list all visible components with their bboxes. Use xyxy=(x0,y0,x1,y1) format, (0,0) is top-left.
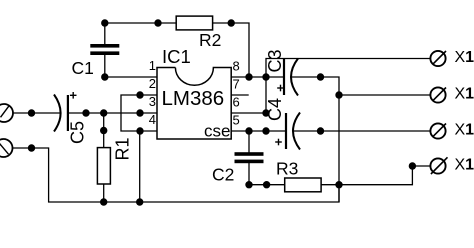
capacitor C2 xyxy=(235,152,264,163)
capacitor C1 xyxy=(90,44,119,55)
wire input bottom to rail xyxy=(13,148,340,202)
wire R1 upper lead xyxy=(103,113,105,148)
connector X1 pin 3 xyxy=(430,123,446,138)
wire C2 upper lead xyxy=(248,131,250,154)
svg-text:R3: R3 xyxy=(276,159,298,179)
wire pin 8 to C3 xyxy=(231,76,284,78)
svg-text:LM386: LM386 xyxy=(162,87,225,110)
wire C3 right to corner down xyxy=(291,77,339,202)
capacitor C4 xyxy=(285,113,287,149)
wire input top to C5 xyxy=(13,112,62,114)
svg-text:7: 7 xyxy=(233,77,240,92)
resistor R1 xyxy=(97,148,110,184)
node pin8 / R2 xyxy=(245,73,252,80)
node V+ junction xyxy=(262,73,269,80)
resistor R2 xyxy=(176,16,212,30)
wire pin 6 xyxy=(231,112,266,114)
node input top terminal xyxy=(28,109,35,116)
svg-text:cse: cse xyxy=(204,122,230,141)
connector X1 pin 1 xyxy=(430,51,446,66)
node pin 6 xyxy=(262,109,269,116)
node pin 3 dot xyxy=(136,109,143,116)
plus C3 xyxy=(277,85,284,92)
wire pin 4 down to ground rail xyxy=(139,131,141,202)
wire C5 to pin 3 xyxy=(68,112,157,114)
wire R2 right to corner and down to pin 8 xyxy=(213,23,249,77)
input connector J1 top xyxy=(0,104,13,122)
svg-text:C1: C1 xyxy=(72,58,94,78)
node X1-2 tee xyxy=(335,91,342,98)
svg-text:1: 1 xyxy=(149,58,156,73)
node R3 left terminal xyxy=(263,181,270,188)
wire C2 to R3 xyxy=(249,184,285,186)
node pin 2 dot xyxy=(136,91,143,98)
node C3 right terminal xyxy=(317,73,324,80)
svg-text:R1: R1 xyxy=(113,137,133,160)
svg-text:X1: X1 xyxy=(455,122,474,139)
wire C4 right to X1-3 xyxy=(293,130,430,132)
wire R3 right to X1-4 corner xyxy=(321,166,430,185)
svg-text:4: 4 xyxy=(149,112,156,127)
svg-text:X1: X1 xyxy=(455,157,474,174)
node pin4-rail xyxy=(136,198,143,205)
node R2 right terminal xyxy=(228,19,235,26)
node C1 top xyxy=(101,19,108,26)
svg-text:C3: C3 xyxy=(265,49,285,72)
node R1-rail xyxy=(100,198,107,205)
connector X1 pin 4 xyxy=(430,157,447,174)
op-amp IC1 LM386 body xyxy=(157,68,231,140)
wire to X1-2 xyxy=(339,94,430,96)
svg-text:5: 5 xyxy=(233,113,240,128)
node R1 top junction xyxy=(100,109,107,116)
wire pin 5 to C4 xyxy=(231,130,286,132)
node C4 right terminal xyxy=(317,127,324,134)
svg-text:C2: C2 xyxy=(212,165,234,185)
wire V+ up and to X1-1 xyxy=(266,59,430,114)
node pin 4 dot xyxy=(136,127,143,134)
svg-text:2: 2 xyxy=(149,76,156,91)
wire pin 7 stub xyxy=(231,94,249,96)
wire C1 upper lead xyxy=(104,23,106,46)
node R2 left terminal xyxy=(154,19,161,26)
svg-text:C4: C4 xyxy=(265,98,285,121)
capacitor C5 xyxy=(54,95,61,132)
node C5 right terminal xyxy=(82,109,89,116)
svg-text:C5: C5 xyxy=(68,121,88,144)
node C2 bottom xyxy=(245,181,252,188)
wire bracket pins 2-4 xyxy=(121,95,157,131)
wire top rail from C1 to R2 xyxy=(105,22,176,24)
svg-text:IC1: IC1 xyxy=(162,46,191,67)
input connector J2 bottom xyxy=(0,139,13,157)
svg-text:X1: X1 xyxy=(455,86,474,103)
node C4 left terminal xyxy=(262,127,269,134)
svg-text:R2: R2 xyxy=(199,30,221,50)
node pin5 / C2 xyxy=(245,127,252,134)
wire C2 lower lead xyxy=(248,161,250,184)
plus C5 xyxy=(70,92,77,99)
node R3 / ground junction xyxy=(335,181,342,188)
svg-text:3: 3 xyxy=(149,94,156,109)
wire R1 lower lead xyxy=(103,184,105,202)
node C1 / pin1 xyxy=(101,73,108,80)
wire C1 lower lead to pin 1 xyxy=(104,53,106,77)
svg-text:8: 8 xyxy=(233,59,240,74)
svg-text:6: 6 xyxy=(233,95,240,110)
wire pin 1 xyxy=(105,76,157,78)
node R1 upper terminal xyxy=(100,127,107,134)
svg-text:X1: X1 xyxy=(455,49,474,66)
connector X1 pin 2 xyxy=(430,87,446,102)
plus C4 xyxy=(275,139,282,146)
node input bottom terminal xyxy=(28,144,35,151)
resistor R3 xyxy=(285,178,321,192)
capacitor C3 xyxy=(283,59,285,95)
node X1-4 corner xyxy=(409,162,416,169)
